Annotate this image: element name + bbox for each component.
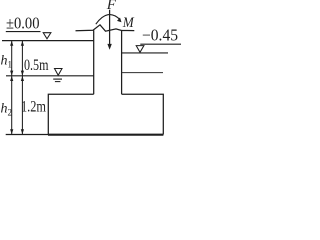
svg-text:M: M	[122, 15, 135, 31]
dim1 arrow bottom	[10, 129, 13, 134]
force F arrowhead	[107, 44, 111, 50]
dimension line 2 (0.5m/1.2m)	[21, 41, 23, 135]
svg-text:±0.00: ±0.00	[6, 14, 40, 33]
dimension line 1 (h1/h2)	[11, 41, 13, 135]
footing bottom line	[48, 134, 163, 136]
dim1 arrow mid up	[10, 71, 13, 76]
svg-text:0.5m: 0.5m	[24, 57, 49, 74]
water table triangle	[55, 69, 63, 76]
elevation 0.00 triangle	[43, 33, 51, 39]
dim2 arrow mid up	[21, 71, 24, 76]
lower line right	[122, 72, 163, 74]
svg-text:h1: h1	[1, 54, 13, 70]
elevation -0.45 triangle	[136, 46, 144, 53]
svg-text:F: F	[106, 0, 117, 13]
dim2 arrow bottom	[21, 129, 24, 134]
svg-text:1.2m: 1.2m	[21, 98, 46, 115]
moment M arc	[96, 15, 121, 25]
bottom dimension tick	[6, 134, 48, 136]
ground line left (elev 0.00)	[2, 40, 94, 42]
footing outline	[48, 94, 163, 134]
moment M arrowhead	[117, 18, 122, 23]
water table hatch 2	[55, 81, 61, 83]
water line right	[122, 52, 168, 54]
wall left edge	[93, 30, 95, 94]
wall top break line	[76, 25, 135, 31]
water table line left	[6, 75, 94, 77]
svg-text:−0.45: −0.45	[142, 25, 178, 44]
svg-text:h2: h2	[1, 102, 13, 118]
dim2 arrow top	[21, 41, 24, 46]
dim1 arrow top	[10, 41, 13, 46]
elevation 0.00 underline	[6, 31, 41, 33]
water table hatch 1	[53, 78, 62, 80]
elevation -0.45 underline	[140, 43, 181, 45]
force F arrow shaft	[109, 10, 111, 45]
dim1 arrow mid down	[10, 76, 13, 81]
dim2 arrow mid down	[21, 76, 24, 81]
wall right edge	[121, 31, 123, 95]
